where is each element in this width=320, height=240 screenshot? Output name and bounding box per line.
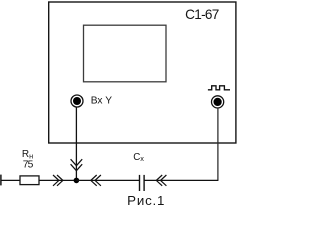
connector chevron left (socket) after junction — [91, 175, 101, 186]
connector chevron right (plug) on resistor wire — [53, 175, 63, 186]
svg-text:75: 75 — [23, 160, 34, 171]
oscilloscope U1 body — [49, 2, 236, 143]
svg-text:C1-67: C1-67 — [185, 7, 219, 22]
wire from Вх Y terminal down to junction A — [75, 107, 77, 180]
resistor Rн — [20, 176, 39, 185]
wire from resistor to junction A — [39, 179, 76, 181]
left terminal bar — [0, 175, 2, 186]
wire from terminal bar to resistor R1 — [1, 179, 20, 181]
oscilloscope screen — [84, 25, 167, 82]
connector chevron left (socket) after capacitor — [156, 175, 166, 186]
connector chevron down on Вх Y wire — [71, 159, 83, 171]
wire from junction A to capacitor Cx — [76, 179, 139, 181]
svg-text:Рис.1: Рис.1 — [127, 193, 165, 208]
square wave symbol — [208, 86, 230, 90]
svg-text:Вх Y: Вх Y — [91, 95, 113, 106]
wire from output terminal down to corner — [217, 108, 219, 180]
svg-text:Cх: Cх — [133, 152, 144, 163]
input terminal Вх Y — [71, 95, 83, 107]
wire from capacitor Cx to right corner — [144, 179, 218, 181]
capacitor Cx plates — [139, 175, 141, 191]
output terminal (calibrator) — [212, 96, 224, 108]
junction A — [74, 178, 80, 184]
